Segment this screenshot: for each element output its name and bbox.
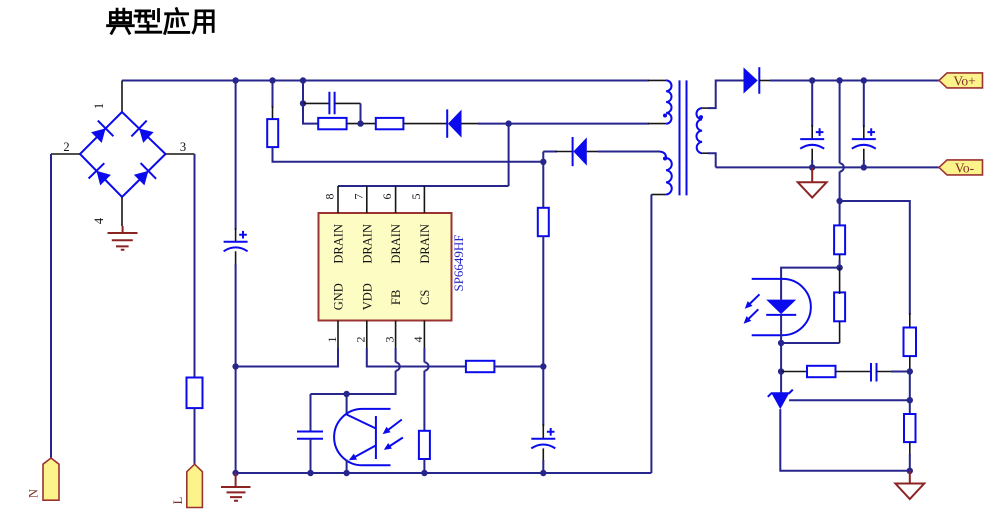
transistor base bar: [375, 416, 377, 459]
ground earth (rail): [221, 473, 251, 501]
pin number 2: [354, 337, 368, 343]
hop pin4 over vdd wire: [424, 362, 428, 370]
bridge pin 4 label: [92, 217, 106, 224]
transistor collector stroke: [347, 415, 376, 429]
wire comp left lead: [781, 371, 807, 373]
resistor R9 parallel: [834, 292, 845, 321]
polarity dot secondary: [699, 115, 703, 119]
light arrow out 2: [744, 309, 759, 324]
junction bottom rail left: [232, 470, 238, 476]
wire R6 to vdd node: [542, 236, 544, 366]
wire main bus upper: [235, 81, 237, 242]
ic pin label DRAIN 8: [332, 224, 346, 264]
svg-text:1: 1: [325, 337, 339, 343]
svg-text:1: 1: [92, 103, 106, 109]
resistor R1 snubber: [318, 118, 346, 129]
wire fb sense lower: [839, 172, 841, 201]
wire snubber R1-R2 lead: [347, 123, 376, 125]
junction vdd node: [540, 363, 546, 369]
bridge pin 1 label: [92, 103, 106, 109]
transformer T1 secondary winding: [696, 108, 702, 153]
fuse F1: [187, 378, 203, 409]
junction led cathode node: [778, 340, 784, 346]
resistor R11 divider lower: [904, 414, 916, 442]
svg-text:DRAIN: DRAIN: [360, 224, 374, 264]
pin number 8: [323, 194, 337, 200]
bridge diode D-LL: [89, 163, 111, 185]
capacitor C4 output: [800, 128, 824, 148]
wire R4 to vdd node: [494, 366, 543, 368]
wire bridge top lead: [121, 81, 123, 113]
hop pin3 over vdd wire: [396, 362, 400, 370]
ic pin stubs top: [338, 186, 424, 213]
junction led anode node: [836, 264, 842, 270]
junction main bus top: [232, 77, 238, 83]
wire drain pin rail: [338, 185, 509, 187]
wire secondary top: [702, 81, 745, 109]
resistor R5 cs: [419, 431, 430, 459]
hop fb over vo- rail: [840, 163, 844, 171]
wire pin3 lower: [311, 371, 396, 394]
resistor R4 vdd: [466, 361, 495, 372]
junction drain node: [505, 120, 511, 126]
wire N line: [50, 154, 52, 458]
svg-text:Vo+: Vo+: [953, 73, 975, 88]
wire snubber cap left lead: [303, 102, 329, 104]
svg-text:N: N: [27, 489, 41, 498]
wire comp right lead: [877, 371, 910, 373]
svg-text:4: 4: [92, 217, 106, 224]
wire fb cap drop: [310, 394, 312, 432]
polarity dot aux: [663, 157, 667, 161]
capacitor C2 snubber: [329, 92, 334, 115]
capacitor C1 bulk: [224, 231, 248, 251]
wire fb cap to rail: [310, 439, 312, 473]
wire main bus mid: [235, 251, 237, 366]
polarity dot primary: [663, 114, 667, 118]
capacitor C6 fb: [297, 432, 323, 439]
wire R8 top: [839, 201, 841, 227]
connector Vo+ tag: [939, 73, 983, 89]
resistor R7 divider upper: [904, 328, 917, 357]
ic pin label DRAIN 7: [360, 224, 374, 264]
light arrow into transistor 2: [384, 438, 403, 450]
svg-text:DRAIN: DRAIN: [418, 224, 432, 264]
pin number 5: [409, 194, 423, 200]
wire snubber drop: [302, 81, 304, 104]
junction opto emitter rail: [343, 470, 349, 476]
junction ref node: [907, 397, 913, 403]
junction sgnd right: [907, 468, 913, 474]
junction rc node: [907, 368, 913, 374]
junction vo+ fb: [836, 77, 842, 83]
junction vo- c4: [809, 164, 815, 170]
svg-text:FB: FB: [389, 290, 403, 305]
capacitor C7 comp: [871, 363, 877, 382]
title text 典型应用: [108, 9, 214, 34]
wire led bottom link: [781, 342, 840, 344]
wire tl431 anode: [780, 409, 910, 471]
ic U1 body SP6649HF: [319, 213, 452, 321]
resistor R10 comp: [807, 366, 836, 377]
resistor R6 vdd: [538, 208, 549, 236]
wire cathode to tl431: [780, 343, 782, 372]
wire bridge right lead: [166, 153, 195, 155]
wire bridge bottom lead: [121, 197, 123, 226]
diode D2 aux: [573, 137, 587, 166]
svg-text:L: L: [171, 497, 185, 505]
svg-text:Vo-: Vo-: [955, 160, 975, 175]
svg-text:SP6649HF: SP6649HF: [451, 234, 466, 291]
junction fb cap rail: [307, 470, 313, 476]
bridge pin 2 label: [63, 140, 69, 154]
bridge diode D-LR: [134, 163, 156, 185]
wire top rail: [122, 79, 666, 81]
transistor emitter stroke: [349, 445, 376, 460]
resistor R2 snubber: [376, 118, 404, 129]
optocoupler U2 led body: [752, 279, 811, 335]
junction startup top: [269, 77, 275, 83]
svg-text:CS: CS: [418, 290, 432, 305]
wire drain vertical: [508, 124, 510, 186]
wire startup resistor top: [272, 81, 274, 120]
svg-text:GND: GND: [332, 283, 346, 310]
junction fb node: [343, 391, 349, 397]
ic pin label VDD: [360, 283, 374, 310]
light arrow out 1: [745, 294, 760, 309]
wire vo+ rail: [759, 80, 939, 82]
svg-text:DRAIN: DRAIN: [389, 224, 403, 264]
ground earth (bridge): [108, 226, 138, 250]
led D4 triangle: [766, 300, 796, 315]
junction aux vdd node: [540, 159, 546, 165]
svg-text:5: 5: [409, 194, 423, 200]
wire secondary bottom: [702, 153, 716, 167]
wire L line upper: [194, 154, 196, 378]
wire R11 to sgnd: [909, 442, 911, 471]
junction fb corner: [836, 198, 842, 204]
wire startup resistor bottom: [273, 147, 544, 162]
wire comp mid lead: [836, 371, 872, 373]
light arrow into transistor 1: [383, 420, 402, 435]
wire tl431 cathode: [780, 372, 782, 394]
connector L tag: [187, 464, 203, 507]
wire R5 to rail: [423, 459, 425, 473]
wire C3 to rail: [542, 448, 544, 473]
transformer T1 aux winding: [659, 152, 672, 195]
wire pin2 vdd: [367, 348, 466, 367]
svg-text:3: 3: [180, 140, 186, 154]
bridge diode D-UL: [91, 121, 113, 143]
ic pin stubs bottom: [338, 321, 424, 351]
svg-text:7: 7: [351, 194, 365, 200]
connector N tag: [43, 458, 59, 500]
transformer T1 primary winding: [666, 80, 671, 123]
junction comp node: [778, 368, 784, 374]
junction vo- c5: [861, 164, 867, 170]
ic U1 name label: [451, 234, 466, 291]
junction snubber mid: [357, 120, 363, 126]
wire led cathode: [780, 315, 782, 343]
wire L line lower: [194, 408, 196, 464]
optocoupler U2 phototransistor body: [334, 409, 390, 465]
ic pin label CS: [418, 290, 432, 305]
connector Vo- tag: [939, 160, 983, 176]
junction snubber rail: [300, 77, 306, 83]
wire fb sense upper: [839, 81, 841, 164]
svg-text:2: 2: [354, 337, 368, 343]
diode D3 output: [744, 67, 760, 94]
wire snubber R2-D1 lead: [403, 123, 447, 125]
bridge BR1 diamond: [80, 112, 166, 197]
resistor R8 bias: [834, 225, 845, 254]
wire C4 bottom lead: [811, 149, 813, 168]
capacitor C3 vdd: [531, 428, 555, 448]
wire R9 leads: [839, 268, 841, 343]
wire R8 bottom: [839, 254, 841, 267]
ground power (vo-): [798, 167, 827, 197]
wire pin4 upper: [423, 348, 425, 362]
shunt regulator U3 TL431: [768, 390, 793, 410]
wire opto emitter to rail: [346, 460, 348, 474]
label L: [171, 497, 185, 505]
wire C5 top lead: [863, 81, 865, 140]
pin number 7: [351, 194, 365, 200]
junction vo+ c4: [809, 77, 815, 83]
wire C4 top lead: [811, 81, 813, 140]
wire bottom rail: [236, 472, 652, 474]
ic pin label DRAIN 5: [418, 224, 432, 264]
bridge diode D-UR: [131, 121, 153, 143]
wire tl431 ref: [789, 399, 910, 401]
junction vdd cap rail: [540, 470, 546, 476]
ic pin label DRAIN 6: [389, 224, 403, 264]
label N: [27, 489, 41, 498]
svg-text:VDD: VDD: [360, 283, 374, 310]
wire pin3 upper: [395, 348, 397, 362]
svg-text:2: 2: [63, 140, 69, 154]
wire bridge left lead: [51, 153, 80, 155]
junction GND node: [232, 363, 238, 369]
junction vo+ c5: [861, 77, 867, 83]
svg-text:DRAIN: DRAIN: [332, 224, 346, 264]
ic pin label GND: [332, 283, 346, 310]
wire led top link: [781, 268, 840, 300]
wire pin1 to gnd bus: [236, 348, 338, 367]
capacitor C5 output: [852, 128, 876, 148]
ground signal (secondary): [895, 471, 924, 499]
ic pin label FB: [389, 290, 403, 305]
pin number 4: [411, 337, 425, 343]
wire C5 bottom lead: [863, 149, 865, 168]
resistor R3 startup: [267, 119, 278, 147]
bridge pin 3 label: [180, 140, 186, 154]
wire aux node drop: [542, 162, 544, 208]
wire primary return: [509, 123, 666, 125]
pin number 6: [380, 194, 394, 200]
wire R7 to ref node: [909, 356, 911, 372]
wire pin4 lower: [423, 371, 425, 431]
wire ref to R11: [909, 400, 911, 414]
diode D1 snubber: [447, 109, 461, 137]
junction snubber node: [300, 100, 306, 106]
pin number 3: [382, 337, 396, 343]
pin number 1: [325, 337, 339, 343]
wire aux diode right: [587, 151, 659, 153]
wire snubber left down: [303, 103, 318, 123]
svg-text:8: 8: [323, 194, 337, 200]
wire D1 to drain node: [462, 123, 509, 125]
wire ref link: [909, 372, 911, 401]
wire snubber cap right lead: [335, 103, 361, 123]
transformer T1 core: [680, 80, 687, 195]
wire vdd node to cap: [542, 367, 544, 439]
wire fb to divider: [840, 201, 910, 328]
wire main bus lower: [235, 367, 237, 474]
wire vo- rail: [716, 166, 939, 168]
wire opto collector: [346, 394, 348, 415]
junction cs rail: [421, 470, 427, 476]
svg-text:4: 4: [411, 337, 425, 343]
wire aux return riser: [651, 195, 666, 474]
svg-text:3: 3: [382, 337, 396, 343]
svg-text:6: 6: [380, 194, 394, 200]
wire aux diode left: [543, 152, 572, 162]
